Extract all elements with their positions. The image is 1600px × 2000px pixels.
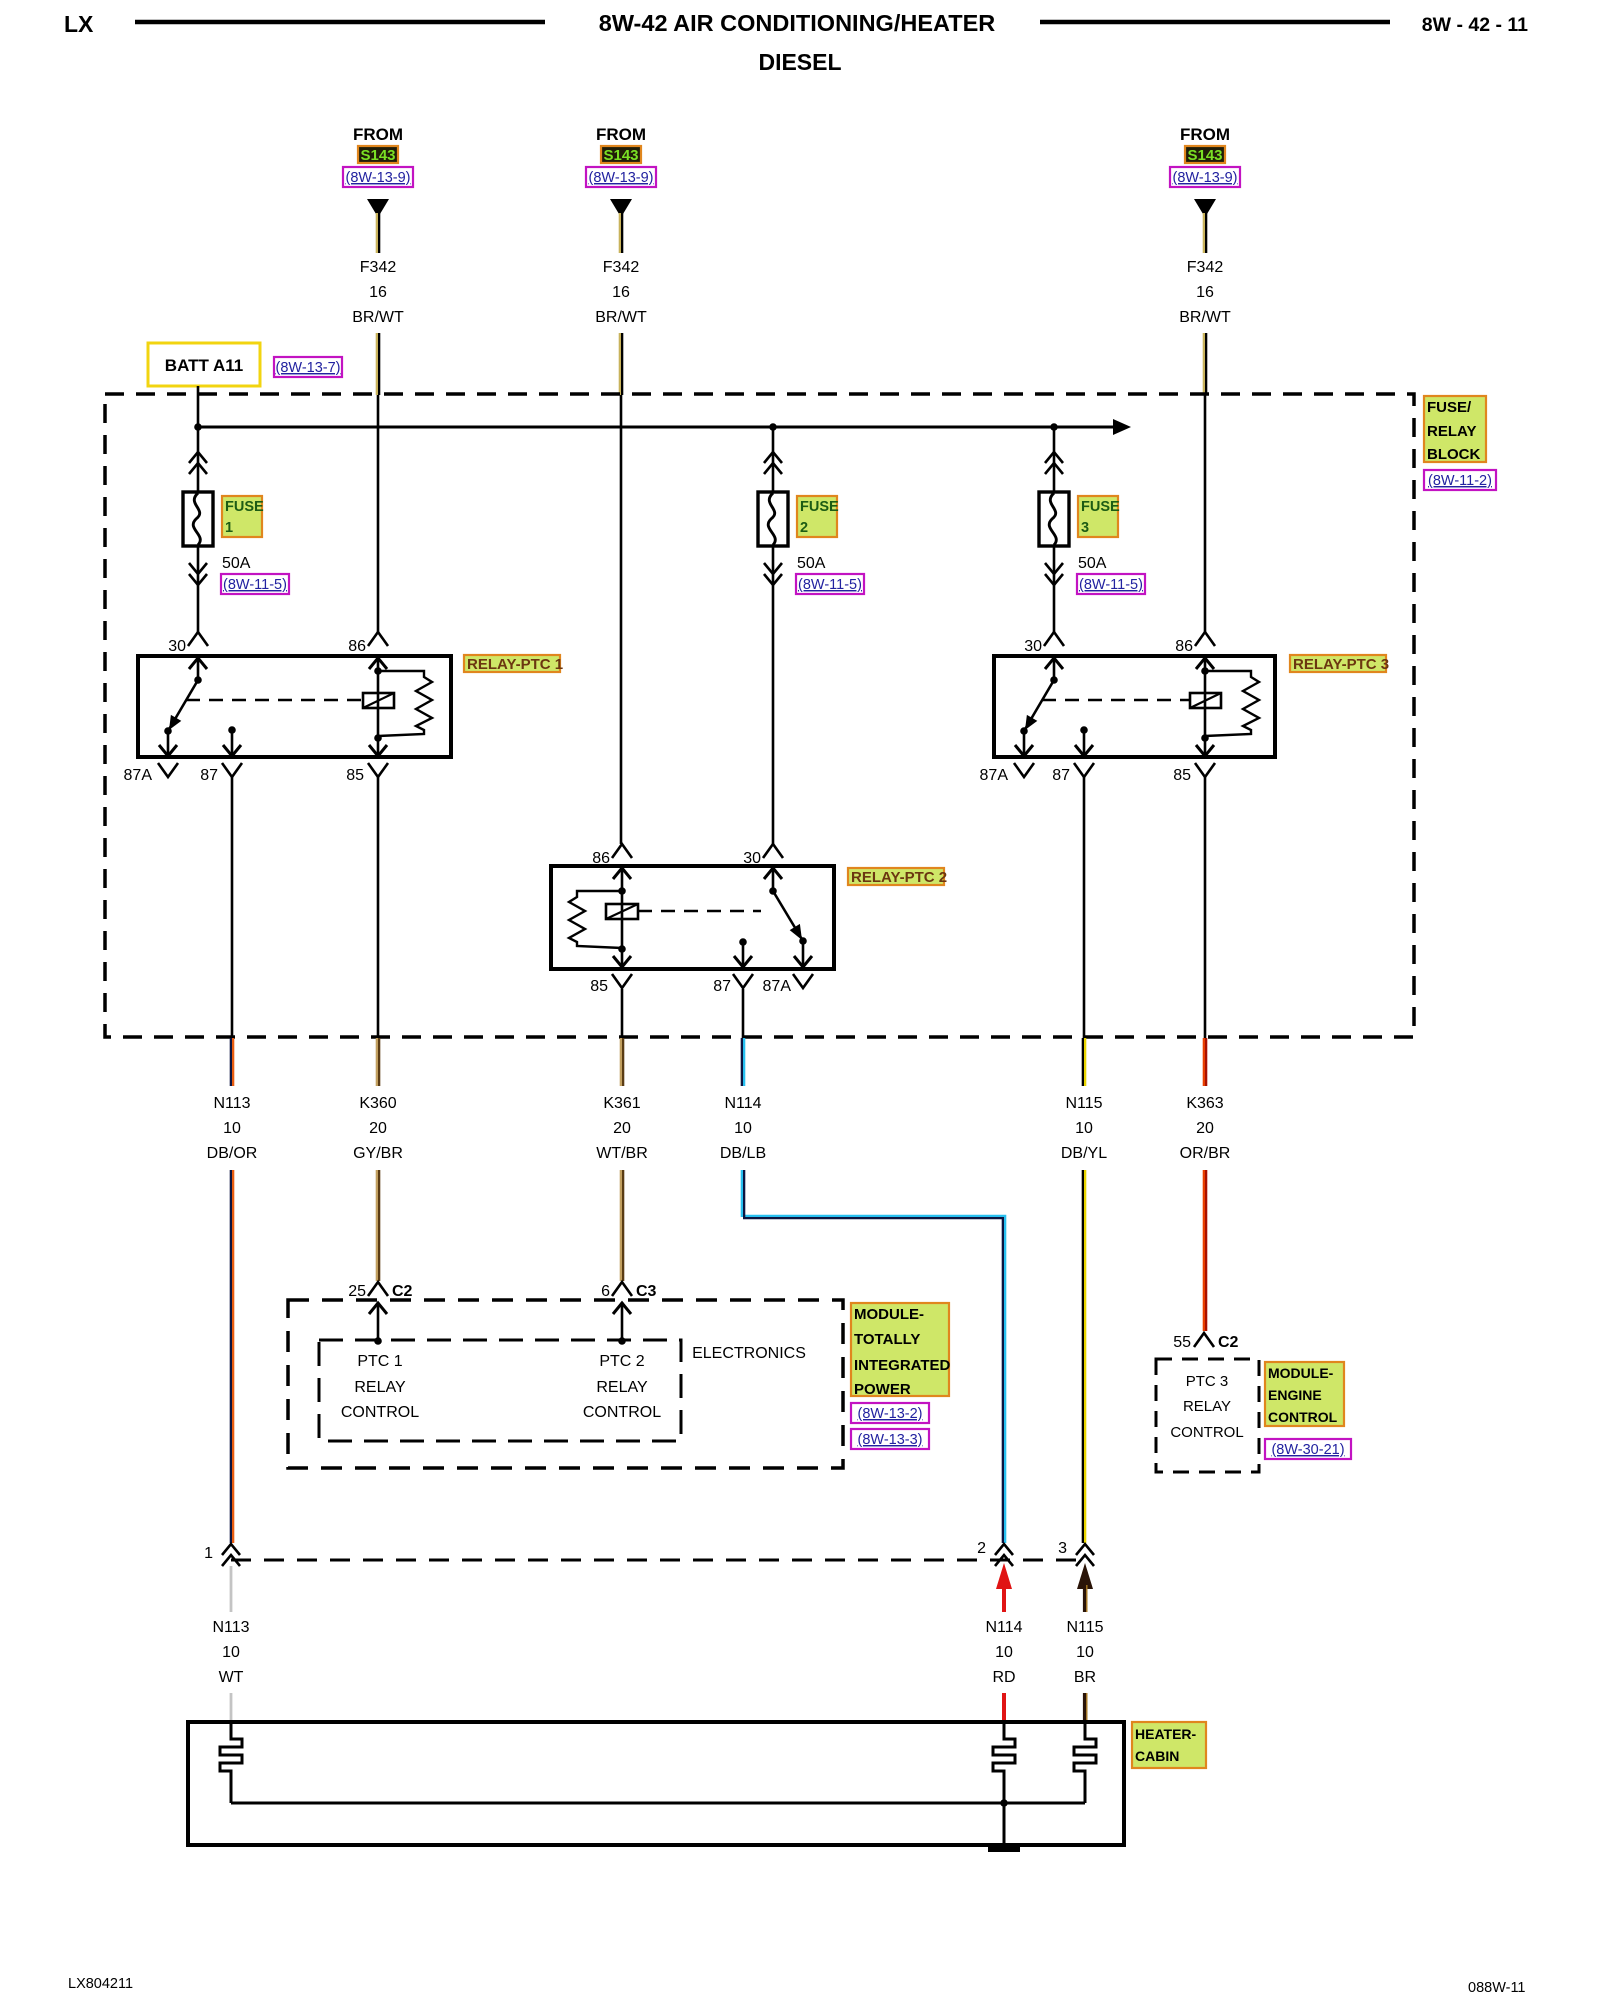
relay 3 pin 30 bbox=[1044, 632, 1064, 646]
svg-text:RELAY-PTC 3: RELAY-PTC 3 bbox=[1293, 656, 1389, 673]
ECM PTC 3 RELAY CONTROL dashed box bbox=[1156, 1359, 1259, 1472]
relay 1 pin 30 bbox=[188, 632, 208, 646]
label FUSE 1 bbox=[222, 496, 262, 537]
svg-text:16: 16 bbox=[612, 284, 630, 301]
svg-text:(8W-13-9): (8W-13-9) bbox=[346, 170, 411, 186]
svg-text:50A: 50A bbox=[1078, 555, 1107, 572]
relay 3 pin 87A bbox=[1020, 727, 1028, 735]
svg-text:1: 1 bbox=[225, 520, 233, 536]
wire relay3 pin87 to block edge bbox=[1083, 777, 1086, 1038]
hotlink (8W-11-5) fuse 2 bbox=[796, 574, 864, 594]
TIPM internal arrow pin25 bbox=[377, 1302, 380, 1340]
svg-text:N115: N115 bbox=[1066, 1619, 1103, 1636]
svg-text:RELAY: RELAY bbox=[354, 1379, 406, 1396]
wire N115 10 DB/YL bbox=[1082, 1038, 1084, 1086]
relay 3 coil bbox=[1201, 667, 1209, 675]
relay 1 pin 87A bbox=[164, 727, 172, 735]
wire N114 10 RD with arrow bbox=[996, 1563, 1012, 1589]
svg-text:10: 10 bbox=[734, 1120, 752, 1137]
heater-cabin box bbox=[188, 1722, 1124, 1845]
relay 1 box bbox=[138, 656, 451, 757]
hotlink (8W-11-5) fuse 1 bbox=[221, 574, 289, 594]
wire bus to ground bbox=[1003, 1803, 1006, 1847]
relay 2 pin 87A bbox=[799, 937, 807, 945]
wire relay1 pin87 to block edge bbox=[231, 777, 234, 1038]
svg-text:BR: BR bbox=[1074, 1669, 1096, 1686]
junction node at fuse 3 branch bbox=[1050, 423, 1058, 431]
svg-text:16: 16 bbox=[369, 284, 387, 301]
relay 1 coil suppression resistor bbox=[378, 671, 432, 736]
svg-text:RELAY-PTC 1: RELAY-PTC 1 bbox=[467, 656, 563, 673]
wire N114 elbow run to connector pin 2 bbox=[742, 1170, 1005, 1543]
svg-text:(8W-11-5): (8W-11-5) bbox=[798, 577, 862, 593]
svg-text:S143: S143 bbox=[1187, 147, 1222, 164]
connector pin 2 bbox=[995, 1544, 1013, 1555]
svg-text:2: 2 bbox=[800, 520, 808, 536]
off-page connector FROM S143 (8W-13-9) #2 bbox=[586, 125, 656, 187]
relay 3 coil suppression resistor bbox=[1205, 671, 1259, 736]
relay 3 pin 86 bbox=[1195, 632, 1215, 646]
svg-text:ENGINE: ENGINE bbox=[1268, 1387, 1322, 1403]
in-line connector chevrons above fuse 3 bbox=[1045, 452, 1063, 463]
svg-text:10: 10 bbox=[995, 1644, 1013, 1661]
svg-text:87A: 87A bbox=[124, 767, 153, 784]
relay 3 box bbox=[994, 656, 1275, 757]
svg-text:(8W-13-2): (8W-13-2) bbox=[858, 1406, 923, 1422]
hotlink (8W-13-2) bbox=[851, 1403, 929, 1423]
off-page connector FROM S143 (8W-13-9) #1 bbox=[343, 125, 413, 187]
svg-text:MODULE-: MODULE- bbox=[854, 1306, 924, 1323]
svg-text:C2: C2 bbox=[1218, 1334, 1239, 1351]
svg-text:N115: N115 bbox=[1065, 1095, 1102, 1112]
svg-text:3: 3 bbox=[1058, 1540, 1067, 1557]
wire F342 16 BR/WT #1 (upper segment with arrival triangle) bbox=[352, 199, 404, 395]
label FUSE 2 bbox=[797, 496, 837, 537]
svg-text:10: 10 bbox=[223, 1120, 241, 1137]
label MODULE-TOTALLY INTEGRATED POWER bbox=[851, 1303, 949, 1396]
wire bus to fuse 2 bbox=[772, 427, 775, 492]
in-line connector chevrons below fuse 1 bbox=[189, 574, 207, 585]
junction node at fuse 1 branch bbox=[194, 423, 202, 431]
svg-text:CONTROL: CONTROL bbox=[1268, 1409, 1338, 1425]
relay 2 box bbox=[551, 866, 834, 969]
wire relay2 pin87 to block edge bbox=[742, 989, 745, 1038]
wire bus to fuse 1 bbox=[197, 427, 200, 492]
wire F342 black segment inside fuse/relay block #2 bbox=[620, 395, 623, 844]
wire from BATT A11 down to bus bbox=[197, 386, 200, 428]
relay 2 coil bbox=[618, 887, 626, 895]
svg-text:PTC 1: PTC 1 bbox=[357, 1353, 402, 1370]
svg-text:3: 3 bbox=[1081, 520, 1089, 536]
label RELAY-PTC 3 bbox=[1290, 655, 1386, 672]
svg-text:RD: RD bbox=[992, 1669, 1015, 1686]
svg-text:RELAY: RELAY bbox=[1183, 1398, 1231, 1415]
svg-text:K361: K361 bbox=[603, 1095, 640, 1112]
fuse F1 symbol bbox=[183, 492, 213, 546]
svg-text:87A: 87A bbox=[763, 978, 792, 995]
in-line connector dashed line bbox=[231, 1559, 1085, 1562]
svg-text:MODULE-: MODULE- bbox=[1268, 1365, 1334, 1381]
svg-text:N114: N114 bbox=[985, 1619, 1022, 1636]
relay 1 pin 86 bbox=[368, 632, 388, 646]
relay 1 switch arm (30 to 87A) bbox=[194, 676, 202, 684]
svg-text:DB/LB: DB/LB bbox=[720, 1145, 766, 1162]
svg-text:F342: F342 bbox=[603, 259, 640, 276]
svg-text:87A: 87A bbox=[980, 767, 1009, 784]
svg-text:RELAY: RELAY bbox=[596, 1379, 648, 1396]
svg-text:BLOCK: BLOCK bbox=[1427, 446, 1480, 463]
svg-text:CONTROL: CONTROL bbox=[1170, 1424, 1243, 1441]
wire relay2 pin85 to block edge bbox=[621, 989, 624, 1038]
connector pin 6 C3 on TIPM bbox=[612, 1282, 632, 1296]
power bus wire with arrow bbox=[198, 426, 1113, 429]
TIPM internal arrow pin6 bbox=[621, 1302, 624, 1340]
svg-text:(8W-11-2): (8W-11-2) bbox=[1428, 473, 1492, 489]
svg-text:FROM: FROM bbox=[596, 125, 646, 144]
svg-text:INTEGRATED: INTEGRATED bbox=[854, 1357, 951, 1374]
header rule left bbox=[135, 20, 545, 25]
relay 3 pin 85 bbox=[1204, 738, 1207, 756]
heater element 1 bbox=[220, 1722, 242, 1803]
svg-text:WT: WT bbox=[219, 1669, 244, 1686]
connector pin 25 C2 on TIPM bbox=[368, 1282, 388, 1296]
svg-text:POWER: POWER bbox=[854, 1381, 911, 1398]
svg-text:S143: S143 bbox=[360, 147, 395, 164]
svg-text:LX: LX bbox=[64, 11, 94, 37]
relay 2 pin 87 bbox=[739, 938, 747, 946]
svg-text:(8W-11-5): (8W-11-5) bbox=[223, 577, 287, 593]
svg-text:LX804211: LX804211 bbox=[68, 1976, 133, 1992]
label HEATER-CABIN bbox=[1132, 1722, 1206, 1768]
wire F342 16 BR/WT #2 (upper segment with arrival triangle) bbox=[595, 199, 647, 395]
svg-text:2: 2 bbox=[977, 1540, 986, 1557]
svg-text:20: 20 bbox=[1196, 1120, 1214, 1137]
svg-text:BR/WT: BR/WT bbox=[1179, 309, 1231, 326]
wire F342 16 BR/WT #3 (upper segment with arrival triangle) bbox=[1179, 199, 1231, 395]
relay 1 armature link (dashed) bbox=[186, 699, 363, 702]
hotlink (8W-30-21) bbox=[1265, 1439, 1351, 1459]
svg-text:10: 10 bbox=[1075, 1120, 1093, 1137]
svg-text:N113: N113 bbox=[213, 1095, 250, 1112]
svg-text:BR/WT: BR/WT bbox=[595, 309, 647, 326]
svg-text:PTC 3: PTC 3 bbox=[1186, 1373, 1229, 1390]
svg-text:(8W-11-5): (8W-11-5) bbox=[1079, 577, 1143, 593]
relay 2 pin 30 bbox=[763, 844, 783, 858]
svg-text:OR/BR: OR/BR bbox=[1180, 1145, 1231, 1162]
in-line connector chevrons below fuse 3 bbox=[1045, 574, 1063, 585]
wire fuse 1 to relay pin 30 bbox=[197, 546, 200, 632]
svg-text:CONTROL: CONTROL bbox=[341, 1404, 419, 1421]
svg-text:FUSE/: FUSE/ bbox=[1427, 399, 1472, 416]
svg-text:87: 87 bbox=[713, 978, 731, 995]
svg-text:8W-42 AIR CONDITIONING/HEATER: 8W-42 AIR CONDITIONING/HEATER bbox=[599, 10, 995, 36]
svg-text:16: 16 bbox=[1196, 284, 1214, 301]
svg-text:30: 30 bbox=[743, 850, 761, 867]
label FUSE/RELAY BLOCK bbox=[1424, 396, 1486, 462]
svg-text:6: 6 bbox=[601, 1283, 610, 1300]
svg-text:1: 1 bbox=[204, 1545, 213, 1562]
relay 2 switch arm (30 to 87A) bbox=[769, 887, 777, 895]
svg-text:(8W-13-9): (8W-13-9) bbox=[1173, 170, 1238, 186]
svg-text:S143: S143 bbox=[603, 147, 638, 164]
svg-text:85: 85 bbox=[1173, 767, 1191, 784]
svg-text:K363: K363 bbox=[1186, 1095, 1223, 1112]
hotlink (8W-13-3) bbox=[851, 1429, 929, 1449]
label MODULE-ENGINE CONTROL bbox=[1265, 1362, 1344, 1426]
svg-text:PTC 2: PTC 2 bbox=[599, 1353, 644, 1370]
heater element 2 bbox=[993, 1722, 1015, 1803]
svg-text:HEATER-: HEATER- bbox=[1135, 1726, 1197, 1742]
svg-text:N113: N113 bbox=[212, 1619, 249, 1636]
wire fuse 2 to relay pin 30 bbox=[772, 546, 775, 844]
svg-text:86: 86 bbox=[592, 850, 610, 867]
in-line connector chevrons above fuse 2 bbox=[764, 452, 782, 463]
wire relay1 pin85 to block edge bbox=[377, 777, 380, 1038]
svg-text:25: 25 bbox=[348, 1283, 366, 1300]
hotlink (8W-13-7) bbox=[274, 357, 342, 377]
wire relay3 pin85 to block edge bbox=[1204, 777, 1207, 1038]
svg-text:50A: 50A bbox=[222, 555, 251, 572]
svg-text:FROM: FROM bbox=[353, 125, 403, 144]
label RELAY-PTC 2 bbox=[848, 868, 944, 885]
hotlink (8W-11-2) bbox=[1424, 470, 1496, 490]
svg-text:CONTROL: CONTROL bbox=[583, 1404, 661, 1421]
fuse F2 symbol bbox=[758, 492, 788, 546]
wire F342 black segment inside fuse/relay block #3 bbox=[1204, 395, 1207, 632]
label RELAY-PTC 1 bbox=[464, 655, 560, 672]
svg-text:C2: C2 bbox=[392, 1283, 413, 1300]
svg-text:RELAY: RELAY bbox=[1427, 423, 1476, 440]
wire N114 10 DB/LB bbox=[741, 1038, 743, 1086]
svg-text:FUSE: FUSE bbox=[1081, 499, 1120, 515]
svg-text:ELECTRONICS: ELECTRONICS bbox=[692, 1345, 806, 1362]
svg-text:(8W-13-3): (8W-13-3) bbox=[858, 1432, 923, 1448]
svg-text:FUSE: FUSE bbox=[225, 499, 264, 515]
svg-text:CABIN: CABIN bbox=[1135, 1748, 1179, 1764]
svg-text:20: 20 bbox=[613, 1120, 631, 1137]
svg-text:GY/BR: GY/BR bbox=[353, 1145, 403, 1162]
heater internal bus wire bbox=[231, 1802, 1085, 1805]
module totally-integrated-power outer dashed box bbox=[288, 1300, 843, 1468]
svg-text:K360: K360 bbox=[359, 1095, 396, 1112]
svg-text:FROM: FROM bbox=[1180, 125, 1230, 144]
wire K360 20 GY/BR bbox=[376, 1038, 378, 1086]
relay 2 coil suppression resistor bbox=[569, 891, 622, 948]
svg-text:BATT A11: BATT A11 bbox=[165, 356, 243, 375]
svg-text:WT/BR: WT/BR bbox=[596, 1145, 648, 1162]
svg-text:DB/OR: DB/OR bbox=[207, 1145, 258, 1162]
svg-text:RELAY-PTC 2: RELAY-PTC 2 bbox=[851, 869, 947, 886]
relay 1 pin 87 bbox=[228, 726, 236, 734]
svg-text:F342: F342 bbox=[360, 259, 397, 276]
svg-text:(8W-13-9): (8W-13-9) bbox=[589, 170, 654, 186]
in-line connector chevrons above fuse 1 bbox=[189, 452, 207, 463]
relay 2 pin 85 bbox=[621, 949, 624, 967]
connector pin 55 C2 on ECM bbox=[1194, 1333, 1214, 1347]
svg-text:10: 10 bbox=[1076, 1644, 1094, 1661]
battery feed label BATT A11 bbox=[148, 343, 260, 386]
heater element 3 bbox=[1074, 1722, 1096, 1803]
junction node at fuse 2 branch bbox=[769, 423, 777, 431]
connector pin 3 bbox=[1076, 1544, 1094, 1555]
relay 3 armature link (dashed) bbox=[1042, 699, 1190, 702]
ground symbol bbox=[988, 1846, 1020, 1852]
svg-text:F342: F342 bbox=[1187, 259, 1224, 276]
svg-text:86: 86 bbox=[348, 638, 366, 655]
relay 2 armature link (dashed) bbox=[638, 910, 761, 913]
hotlink (8W-11-5) fuse 3 bbox=[1077, 574, 1145, 594]
svg-text:55: 55 bbox=[1173, 1334, 1191, 1351]
svg-text:30: 30 bbox=[168, 638, 186, 655]
svg-text:C3: C3 bbox=[636, 1283, 657, 1300]
svg-text:BR/WT: BR/WT bbox=[352, 309, 404, 326]
svg-text:87: 87 bbox=[200, 767, 218, 784]
relay 3 pin 87 bbox=[1080, 726, 1088, 734]
connector pin 1 bbox=[222, 1544, 240, 1555]
svg-text:20: 20 bbox=[369, 1120, 387, 1137]
in-line connector chevrons below fuse 2 bbox=[764, 574, 782, 585]
svg-text:(8W-30-21): (8W-30-21) bbox=[1271, 1442, 1344, 1458]
wire N113 10 WT bbox=[230, 1566, 233, 1612]
svg-text:(8W-13-7): (8W-13-7) bbox=[276, 360, 341, 376]
wire K361 20 WT/BR bbox=[620, 1038, 622, 1086]
svg-text:85: 85 bbox=[346, 767, 364, 784]
relay 3 switch arm (30 to 87A) bbox=[1050, 676, 1058, 684]
wire bus to fuse 3 bbox=[1053, 427, 1056, 492]
wire fuse 3 to relay pin 30 bbox=[1053, 546, 1056, 632]
svg-text:N114: N114 bbox=[724, 1095, 761, 1112]
svg-text:DB/YL: DB/YL bbox=[1061, 1145, 1107, 1162]
svg-text:85: 85 bbox=[590, 978, 608, 995]
relay 1 coil bbox=[374, 667, 382, 675]
svg-text:30: 30 bbox=[1024, 638, 1042, 655]
wire F342 black segment inside fuse/relay block #1 bbox=[377, 395, 380, 632]
fuse F3 symbol bbox=[1039, 492, 1069, 546]
svg-text:87: 87 bbox=[1052, 767, 1070, 784]
svg-text:088W-11: 088W-11 bbox=[1468, 1980, 1526, 1996]
svg-text:8W - 42 - 11: 8W - 42 - 11 bbox=[1422, 14, 1528, 36]
fuse/relay block dashed outline bbox=[105, 394, 1414, 1037]
wire N115 10 BR with arrow bbox=[1077, 1563, 1093, 1589]
svg-text:DIESEL: DIESEL bbox=[758, 49, 841, 75]
TIPM internal electronics dashed box bbox=[319, 1340, 681, 1441]
svg-text:TOTALLY: TOTALLY bbox=[854, 1331, 920, 1348]
svg-text:86: 86 bbox=[1175, 638, 1193, 655]
junction node heater bus bbox=[1000, 1799, 1008, 1807]
header rule right bbox=[1040, 20, 1390, 25]
svg-text:FUSE: FUSE bbox=[800, 499, 839, 515]
wire N113 10 DB/OR bbox=[230, 1038, 232, 1086]
svg-text:10: 10 bbox=[222, 1644, 240, 1661]
label FUSE 3 bbox=[1078, 496, 1118, 537]
relay 1 pin 85 bbox=[377, 738, 380, 756]
off-page connector FROM S143 (8W-13-9) #3 bbox=[1170, 125, 1240, 187]
wire K363 20 OR/BR bbox=[1203, 1038, 1205, 1086]
svg-text:50A: 50A bbox=[797, 555, 826, 572]
relay 2 pin 86 bbox=[612, 844, 632, 858]
